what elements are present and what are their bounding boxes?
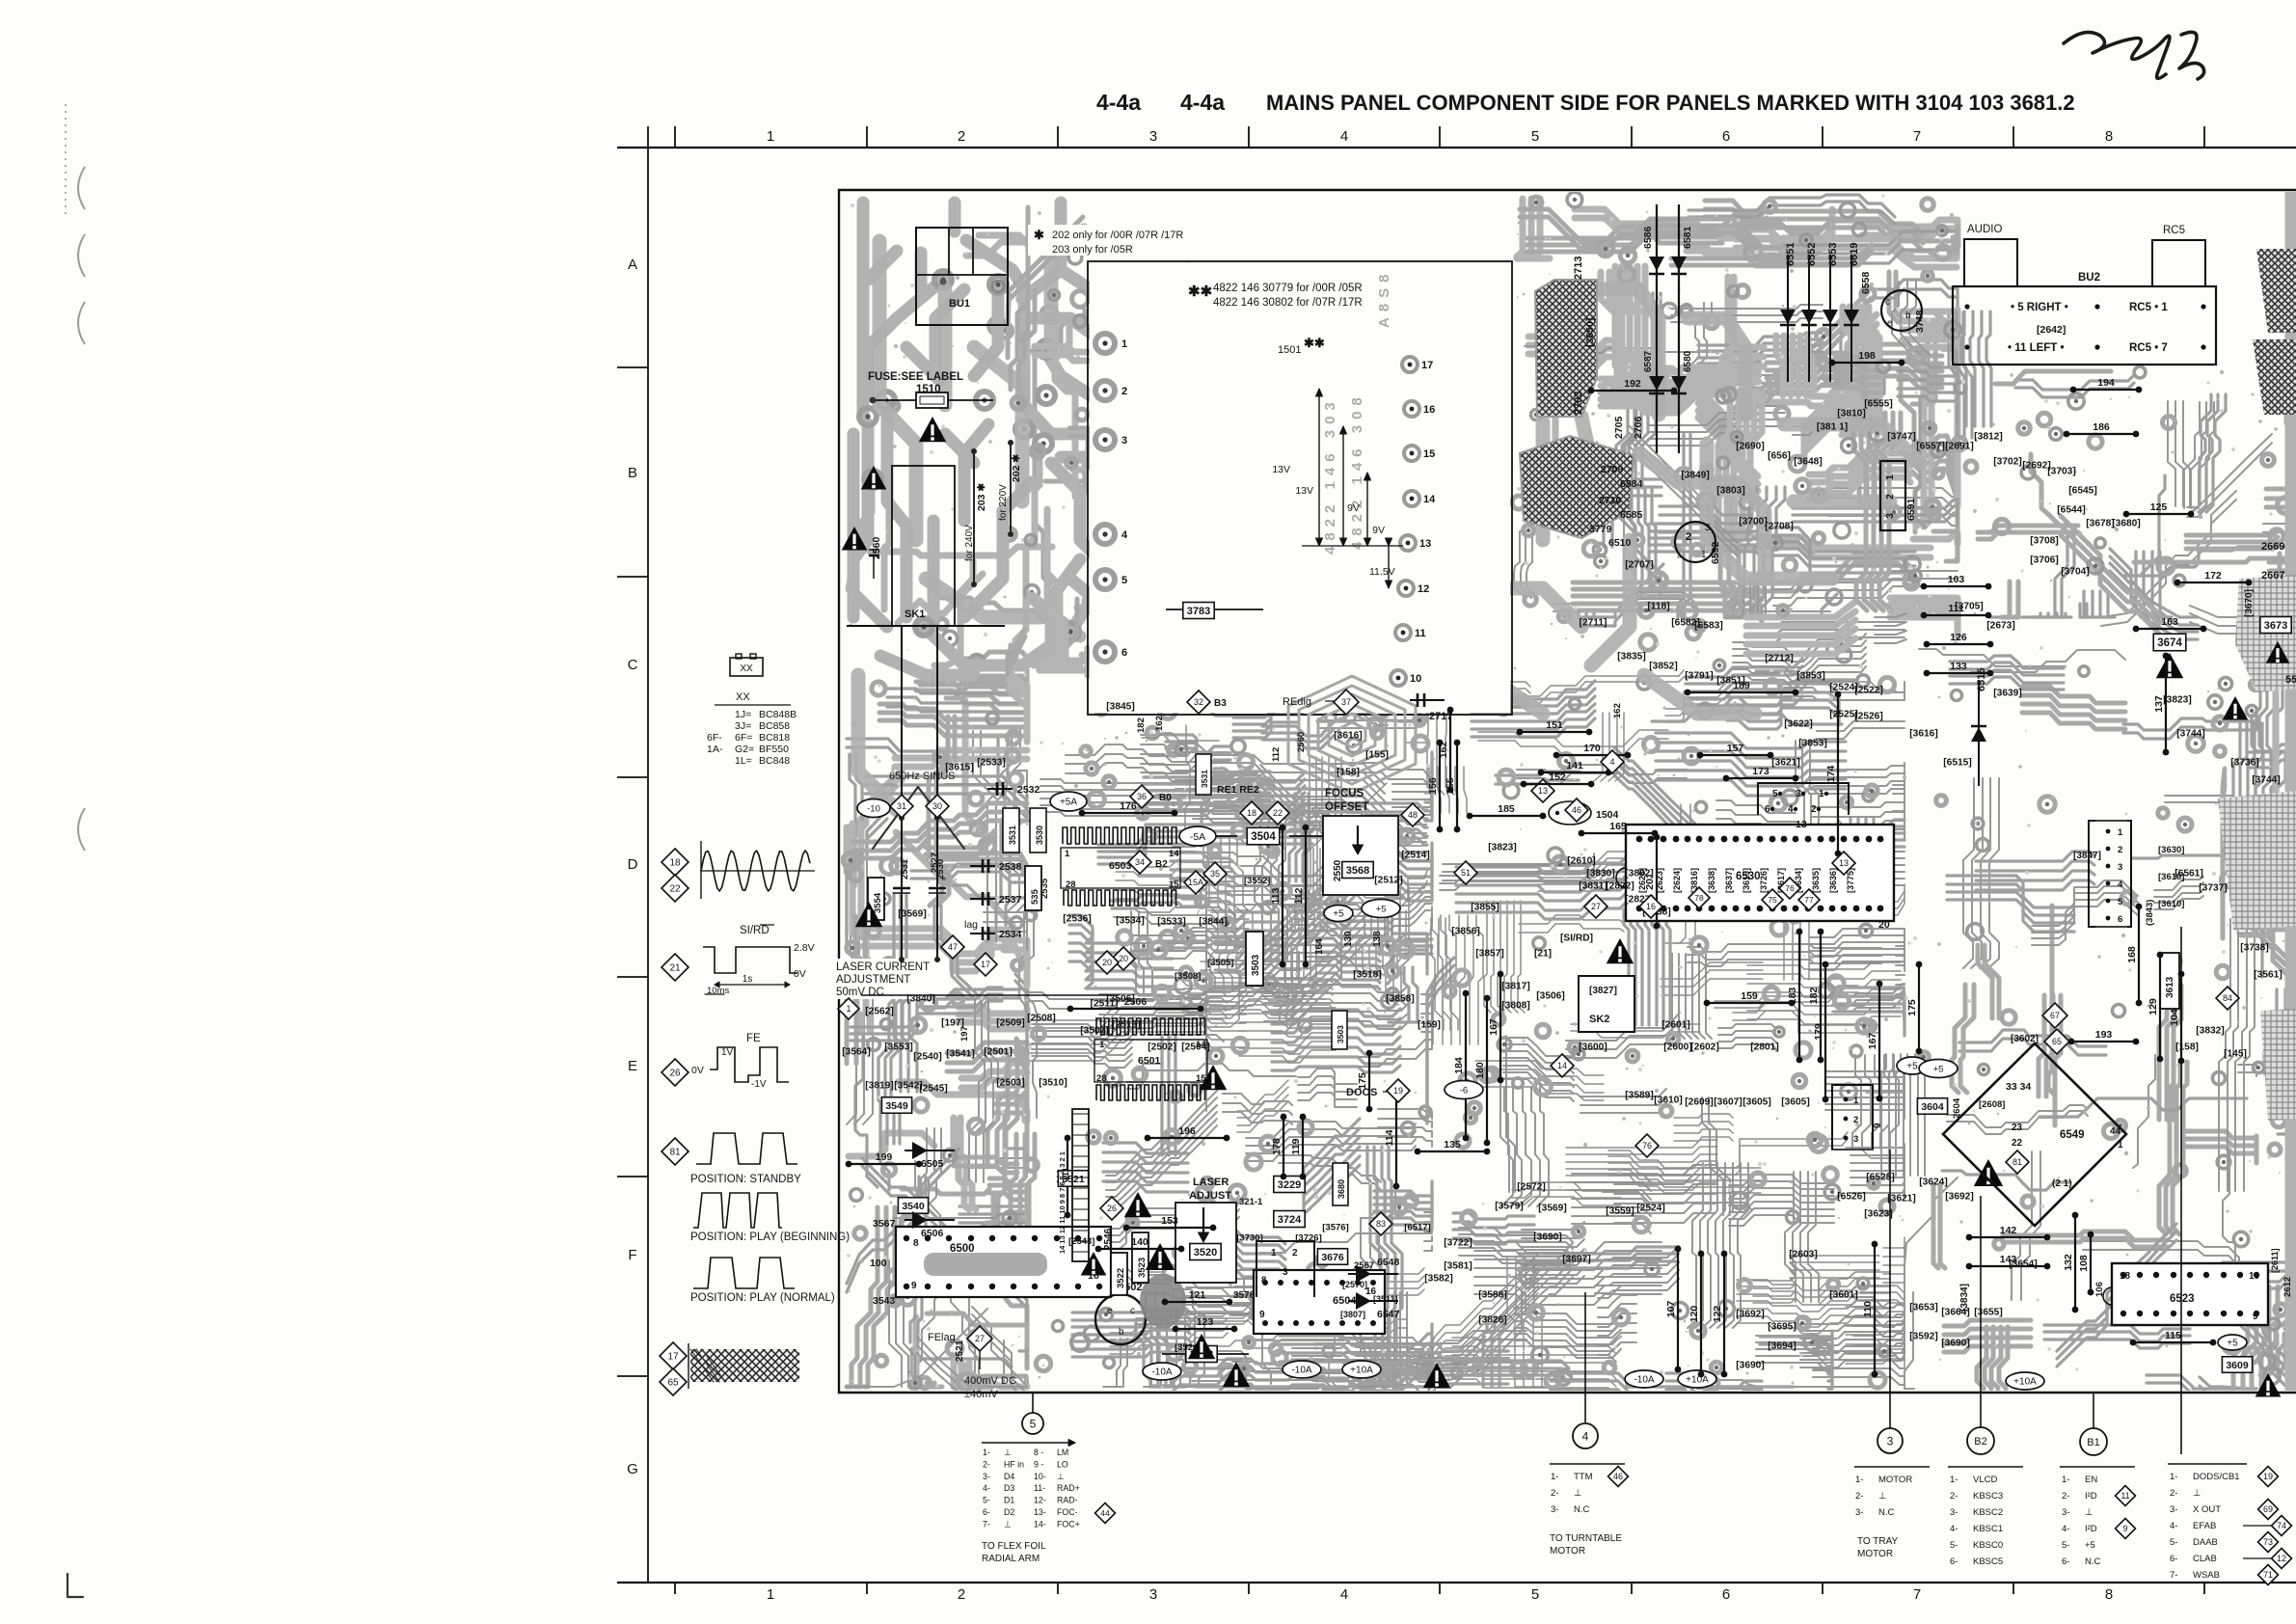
svg-text:[3849]: [3849] — [1681, 471, 1709, 481]
svg-text:-10A: -10A — [1634, 1375, 1654, 1386]
svg-text:3783: 3783 — [1187, 606, 1210, 617]
svg-text:-6: -6 — [1460, 1085, 1468, 1096]
resistor 3503 vertical (right) — [1332, 1011, 1347, 1049]
svg-text:[2562]: [2562] — [865, 1007, 893, 1017]
resistor 3673 boxed — [2260, 617, 2291, 634]
test point line 107 — [1665, 1246, 1681, 1373]
test point line 196 — [1145, 1125, 1230, 1141]
svg-text:[3616]: [3616] — [1334, 731, 1362, 742]
svg-text:122: 122 — [1712, 1306, 1723, 1323]
svg-text:2538: 2538 — [999, 861, 1022, 873]
svg-text:(2 1): (2 1) — [2052, 1178, 2072, 1189]
svg-text:BC848: BC848 — [759, 755, 790, 767]
net -10 — [857, 799, 890, 818]
board edge ground bands — [2285, 193, 2296, 1389]
svg-text:112: 112 — [1271, 747, 1282, 762]
svg-text:3522: 3522 — [1116, 1268, 1126, 1288]
svg-text:16: 16 — [1646, 902, 1656, 911]
svg-text:[3705]: [3705] — [1955, 602, 1983, 612]
svg-text:3676: 3676 — [1321, 1252, 1344, 1263]
svg-text:[6525]: [6525] — [1866, 1173, 1894, 1183]
svg-text:[3690]: [3690] — [1736, 1361, 1764, 1371]
svg-text:174: 174 — [1825, 766, 1837, 783]
svg-text:FUSE:SEE LABEL: FUSE:SEE LABEL — [868, 371, 963, 383]
svg-text:4822 146 303: 4822 146 303 — [1322, 396, 1338, 555]
svg-text:14-: 14- — [1034, 1519, 1046, 1529]
svg-text:129: 129 — [2147, 998, 2159, 1015]
svg-text:194: 194 — [2097, 377, 2115, 389]
test lines 142/143 — [1966, 1225, 2051, 1240]
svg-text:6584: 6584 — [1620, 478, 1643, 490]
svg-text:4-4a: 4-4a — [1180, 90, 1225, 115]
svg-text:⊥: ⊥ — [1057, 1472, 1065, 1481]
svg-text:9: 9 — [1873, 1123, 1883, 1128]
warning triangle mains 1 — [861, 466, 887, 490]
svg-text:4-: 4- — [1950, 1524, 1958, 1534]
svg-text:[3744]: [3744] — [2252, 775, 2280, 786]
test point line 155 — [1445, 740, 1460, 833]
svg-text:[3624]: [3624] — [1919, 1177, 1947, 1188]
svg-text:180: 180 — [1474, 1062, 1486, 1079]
svg-text:18: 18 — [2120, 1271, 2131, 1282]
svg-text:MOTOR: MOTOR — [1878, 1475, 1912, 1485]
svg-text:73: 73 — [2263, 1537, 2273, 1547]
svg-text:[3615]: [3615] — [945, 763, 973, 773]
svg-text:[6517]: [6517] — [1404, 1222, 1430, 1232]
svg-text:[3569]: [3569] — [898, 909, 926, 920]
crosshatch patch C right edge — [2256, 249, 2296, 333]
warning triangle bottom1 — [1223, 1362, 1251, 1387]
svg-text:D: D — [628, 856, 638, 873]
svg-text:[3726]: [3726] — [1759, 868, 1769, 893]
test point line 2506 — [1067, 996, 1204, 1012]
handwritten page mark — [2064, 32, 2170, 78]
svg-text:108: 108 — [2078, 1255, 2090, 1272]
svg-text:[6561]: [6561] — [2174, 869, 2202, 880]
svg-text:[21]: [21] — [1534, 949, 1552, 960]
svg-text:POSITION: PLAY (BEGINNING): POSITION: PLAY (BEGINNING) — [690, 1232, 850, 1243]
svg-text:51: 51 — [1461, 868, 1471, 878]
diodes 6551 6552 6553 6619 — [1780, 243, 1796, 382]
resistor 3229 — [1274, 1177, 1305, 1193]
connector 6591 1 2 3 — [1880, 461, 1905, 530]
svg-text:[3844]: [3844] — [1199, 917, 1227, 928]
svg-text:[3704]: [3704] — [2061, 567, 2089, 578]
svg-text:G2=: G2= — [735, 744, 754, 755]
svg-text:[6555]: [6555] — [1864, 399, 1892, 410]
svg-text:[3505]: [3505] — [1207, 958, 1233, 968]
svg-text:84: 84 — [2223, 993, 2232, 1003]
svg-text:6547: 6547 — [1377, 1309, 1400, 1320]
diodes 6505/6506 — [912, 1142, 928, 1159]
svg-text:G: G — [627, 1461, 638, 1477]
SK2 — [1579, 976, 1634, 1032]
svg-text:TTM: TTM — [1574, 1472, 1593, 1482]
test point line 194 — [2070, 377, 2143, 392]
svg-text:7: 7 — [1913, 1586, 1921, 1603]
svg-text:[3810]: [3810] — [1837, 409, 1865, 420]
test point line 167 — [1488, 971, 1503, 1084]
svg-text:69: 69 — [2263, 1504, 2273, 1514]
test point line 110 — [1862, 1241, 1877, 1378]
svg-text:[3610]: [3610] — [1654, 1096, 1682, 1106]
svg-text:[3636]: [3636] — [1828, 868, 1838, 893]
node 47 — [941, 935, 964, 959]
svg-text:CLAB: CLAB — [2193, 1554, 2217, 1564]
svg-text:2710: 2710 — [1599, 495, 1622, 506]
vertical pin header left — [1072, 1109, 1089, 1261]
svg-text:110: 110 — [1862, 1301, 1874, 1317]
svg-text:[3650]: [3650] — [1584, 318, 1596, 347]
svg-text:14 13 12 11 10 9 8 7 6 5 4 3 2: 14 13 12 11 10 9 8 7 6 5 4 3 2 1 — [1058, 1151, 1067, 1254]
resistors 3522/3523 vertical — [1111, 1253, 1127, 1295]
svg-text:EFAB: EFAB — [2193, 1521, 2216, 1531]
connector 14pin bottom — [1256, 1241, 1314, 1297]
svg-text:1-: 1- — [1551, 1472, 1558, 1482]
svg-text:[3569]: [3569] — [1538, 1204, 1566, 1214]
svg-text:D2: D2 — [1004, 1507, 1014, 1517]
svg-text:RAD+: RAD+ — [1057, 1483, 1080, 1493]
svg-text:3748: 3748 — [1914, 310, 1926, 333]
svg-text:4822 146 308: 4822 146 308 — [1349, 392, 1365, 550]
svg-text:[2603]: [2603] — [1789, 1250, 1817, 1260]
svg-text:3503: 3503 — [1251, 954, 1261, 976]
PCB outer border — [839, 190, 2296, 1393]
test point line 152 — [1521, 771, 1595, 787]
test point line 151 — [1517, 719, 1593, 735]
transistor 6592 — [1675, 522, 1715, 562]
svg-text:[118]: [118] — [1647, 602, 1669, 612]
svg-text:I²D: I²D — [2085, 1524, 2097, 1534]
svg-text:SK1: SK1 — [905, 609, 925, 620]
test point line 111 — [1055, 1135, 1070, 1219]
node 76 — [1635, 1134, 1659, 1157]
svg-text:4: 4 — [1582, 1429, 1589, 1443]
svg-text:10: 10 — [2249, 1271, 2260, 1282]
svg-text:138: 138 — [1372, 931, 1383, 947]
svg-text:FOCUS: FOCUS — [1325, 788, 1364, 799]
svg-text:5: 5 — [1030, 1417, 1037, 1430]
svg-text:+5: +5 — [1906, 1062, 1918, 1072]
svg-text:7-: 7- — [983, 1519, 990, 1529]
svg-text:6586: 6586 — [1642, 226, 1654, 249]
svg-text:VLCD: VLCD — [1973, 1475, 1997, 1485]
transistor 6502 — [1095, 1294, 1146, 1344]
svg-text:30: 30 — [932, 801, 942, 811]
svg-text:[2610]: [2610] — [1567, 856, 1595, 867]
test point line 114 — [1384, 1087, 1399, 1190]
svg-text:3: 3 — [1887, 1434, 1894, 1448]
top ruler — [617, 147, 2296, 149]
test point line 184 — [1453, 990, 1469, 1142]
svg-text:[2511]: [2511] — [1091, 999, 1119, 1010]
svg-text:FOC-: FOC- — [1057, 1507, 1078, 1517]
svg-text:(3843): (3843) — [2145, 900, 2155, 926]
svg-text:D4: D4 — [1004, 1472, 1014, 1481]
mains wide traces — [966, 240, 1024, 405]
svg-text:8: 8 — [1261, 1275, 1266, 1286]
svg-text:[3564]: [3564] — [842, 1047, 870, 1058]
diode 6515 — [1971, 668, 1987, 786]
svg-text:3554: 3554 — [873, 892, 883, 913]
svg-text:[2611]: [2611] — [2270, 1248, 2280, 1273]
svg-text:48: 48 — [1408, 810, 1418, 820]
test point line 141 — [1538, 760, 1612, 775]
svg-text:N.C: N.C — [2085, 1556, 2101, 1567]
svg-text:162: 162 — [1612, 703, 1623, 718]
svg-text:KBSC1: KBSC1 — [1973, 1524, 2003, 1534]
svg-text:[2540]: [2540] — [913, 1052, 941, 1063]
svg-text:[3845]: [3845] — [1106, 702, 1134, 713]
svg-text:AUDIO: AUDIO — [1967, 224, 2002, 235]
svg-text:27: 27 — [975, 1334, 985, 1343]
svg-text:[145]: [145] — [2224, 1049, 2247, 1060]
svg-text:[3506]: [3506] — [1536, 991, 1564, 1002]
svg-text:3540: 3540 — [902, 1201, 925, 1212]
svg-text:3-: 3- — [1950, 1507, 1958, 1518]
svg-text:LASER CURRENT: LASER CURRENT — [836, 961, 930, 973]
transistor package symbol XX — [730, 658, 763, 676]
AUDIO connector stub — [1964, 239, 2017, 286]
node 17 — [974, 953, 997, 976]
svg-text:9: 9 — [1259, 1310, 1265, 1320]
svg-text:100: 100 — [870, 1258, 887, 1269]
svg-text:[3853]: [3853] — [1796, 671, 1824, 682]
svg-text:[3621]: [3621] — [1887, 1194, 1915, 1204]
svg-text:[3619]: [3619] — [1742, 868, 1751, 893]
mains splotch pads — [878, 392, 895, 409]
svg-text:119: 119 — [1290, 1138, 1302, 1154]
svg-text:14: 14 — [1169, 849, 1179, 859]
svg-text:20: 20 — [1102, 958, 1112, 967]
svg-text:47: 47 — [948, 942, 958, 952]
svg-text:3-: 3- — [2062, 1507, 2069, 1518]
svg-text:1: 1 — [1819, 789, 1824, 799]
svg-text:5: 5 — [1531, 1586, 1539, 1603]
svg-text:XX: XX — [736, 691, 750, 703]
svg-text:[3702]: [3702] — [1993, 457, 2021, 468]
svg-text:8: 8 — [913, 1238, 919, 1249]
svg-text:55: 55 — [2285, 674, 2296, 686]
svg-text:184: 184 — [1453, 1057, 1465, 1074]
svg-text:6: 6 — [1765, 804, 1770, 815]
svg-text:3549: 3549 — [885, 1100, 908, 1112]
node 83 — [1369, 1212, 1392, 1235]
svg-text:3-: 3- — [2170, 1504, 2177, 1515]
svg-text:+10A: +10A — [1686, 1375, 1709, 1386]
svg-text:[3511]: [3511] — [1373, 1294, 1398, 1304]
svg-text:+5: +5 — [1933, 1064, 1944, 1074]
svg-text:b: b — [1119, 1327, 1124, 1338]
resistor 3553 — [1162, 1353, 1249, 1355]
svg-text:[3518]: [3518] — [1353, 970, 1381, 981]
svg-text:182: 182 — [1136, 717, 1147, 733]
svg-text:1-: 1- — [2062, 1475, 2069, 1485]
svg-text:[3852]: [3852] — [1649, 662, 1677, 672]
svg-text:78: 78 — [1694, 893, 1704, 903]
svg-text:135: 135 — [1444, 1139, 1461, 1150]
svg-text:2: 2 — [958, 128, 965, 145]
svg-text:3520: 3520 — [1194, 1247, 1217, 1259]
svg-text:12: 12 — [2277, 1554, 2286, 1563]
svg-text:3: 3 — [1853, 1134, 1858, 1145]
svg-text:12: 12 — [1418, 583, 1429, 595]
svg-text:[3589]: [3589] — [1625, 1091, 1653, 1101]
svg-text:535: 535 — [1030, 888, 1040, 905]
net +5 — [1919, 1060, 1958, 1078]
resistor 535 vertical — [1025, 866, 1041, 910]
svg-text:[2536]: [2536] — [1063, 914, 1091, 925]
svg-text:REdig: REdig — [1283, 696, 1311, 708]
svg-text:4: 4 — [1340, 1586, 1348, 1603]
cap 2717 — [1410, 699, 1445, 701]
svg-text:67: 67 — [2050, 1011, 2060, 1020]
svg-text:2: 2 — [958, 1586, 965, 1603]
svg-text:[3559]: [3559] — [1606, 1206, 1634, 1217]
svg-text:74: 74 — [2277, 1521, 2286, 1530]
svg-text:[3694]: [3694] — [1768, 1341, 1796, 1352]
svg-text:2-: 2- — [983, 1459, 990, 1469]
svg-text:3543: 3543 — [873, 1295, 896, 1307]
svg-text:46: 46 — [1572, 805, 1581, 815]
svg-text:1A-: 1A- — [707, 744, 723, 755]
svg-text:14: 14 — [1423, 494, 1436, 505]
svg-text:2537: 2537 — [999, 894, 1022, 906]
svg-text:3: 3 — [1121, 435, 1127, 447]
svg-text:37: 37 — [1341, 697, 1351, 707]
svg-text:10ms: 10ms — [707, 986, 729, 996]
node 27 — [1584, 895, 1607, 918]
callout B2 — [1967, 1427, 1994, 1454]
svg-text:2-: 2- — [1950, 1491, 1958, 1502]
svg-text:3609: 3609 — [2226, 1360, 2249, 1371]
svg-text:23: 23 — [2012, 1123, 2023, 1133]
misc labels bottom middle — [1283, 1361, 1321, 1378]
svg-text:[2624]: [2624] — [1672, 868, 1682, 893]
svg-text:FElag: FElag — [928, 1332, 956, 1343]
node 4 — [1601, 750, 1624, 773]
test point line 175 — [1906, 961, 1922, 1055]
svg-text:400mV DC: 400mV DC — [964, 1375, 1016, 1387]
svg-text:[3831]: [3831] — [1579, 881, 1607, 892]
svg-text:2: 2 — [1121, 386, 1127, 397]
svg-text:4: 4 — [1121, 529, 1128, 541]
svg-text:7-: 7- — [2170, 1570, 2177, 1581]
svg-text:[2712]: [2712] — [1765, 654, 1793, 664]
svg-text:[3830]: [3830] — [1586, 869, 1614, 880]
svg-text:157: 157 — [1727, 743, 1744, 754]
svg-text:22: 22 — [669, 884, 681, 895]
svg-text:2534: 2534 — [999, 929, 1022, 940]
svg-text:WSAB: WSAB — [2193, 1570, 2220, 1581]
svg-text:MOTOR: MOTOR — [1550, 1546, 1585, 1556]
svg-text:76: 76 — [1785, 883, 1795, 893]
svg-text:1: 1 — [1099, 1040, 1105, 1050]
svg-text:[2526]: [2526] — [1854, 712, 1882, 722]
square wave play normal — [693, 1258, 795, 1288]
svg-text:2531: 2531 — [900, 858, 910, 880]
svg-text:1J=: 1J= — [735, 709, 751, 720]
svg-text:5-: 5- — [1950, 1540, 1958, 1551]
svg-text:[158]: [158] — [1337, 768, 1360, 778]
svg-text:[2570]: [2570] — [1342, 1280, 1367, 1289]
svg-text:[6515]: [6515] — [1943, 758, 1971, 769]
svg-text:65: 65 — [667, 1378, 679, 1389]
svg-text:44: 44 — [2110, 1126, 2121, 1137]
svg-text:MAINS PANEL COMPONENT SIDE FOR: MAINS PANEL COMPONENT SIDE FOR PANELS MA… — [1266, 91, 2075, 115]
svg-text:[3851]: [3851] — [1716, 676, 1744, 687]
svg-text:164: 164 — [1314, 938, 1325, 955]
svg-text:[2708]: [2708] — [1765, 522, 1793, 532]
svg-text:BF550: BF550 — [759, 744, 789, 755]
svg-text:1: 1 — [1853, 1096, 1859, 1106]
node 36 — [1130, 785, 1153, 808]
test point line 173 — [1723, 766, 1799, 781]
svg-text:34: 34 — [1135, 857, 1145, 867]
svg-text:11.5V: 11.5V — [1369, 566, 1395, 578]
IC 6500 — [896, 1227, 1111, 1297]
svg-text:202 ✱: 202 ✱ — [1011, 454, 1022, 482]
diamond 67/65 + 193 — [2042, 1003, 2067, 1028]
svg-text:159: 159 — [1741, 990, 1758, 1002]
note 202/203 — [1028, 225, 1182, 256]
svg-text:203 ✱: 203 ✱ — [976, 483, 987, 511]
svg-text:for 220V: for 220V — [998, 484, 1009, 521]
svg-text:2-: 2- — [1551, 1488, 1558, 1499]
svg-text:168: 168 — [2126, 946, 2138, 963]
svg-text:3613: 3613 — [2165, 976, 2175, 998]
sine source symbol — [873, 787, 964, 849]
svg-text:3531: 3531 — [1200, 770, 1209, 788]
copper trace texture (scanned PCB look) — [898, 574, 983, 623]
svg-text:[2572]: [2572] — [1517, 1182, 1545, 1193]
svg-text:22: 22 — [1273, 808, 1283, 818]
svg-text:E: E — [628, 1058, 637, 1074]
svg-text:1: 1 — [2118, 1140, 2123, 1150]
svg-text:2709: 2709 — [1601, 464, 1624, 475]
svg-text:6551: 6551 — [1785, 243, 1796, 266]
node 51 — [1454, 861, 1477, 884]
svg-text:6-: 6- — [2170, 1554, 2177, 1564]
svg-text:[3601]: [3601] — [1829, 1290, 1857, 1301]
svg-text:6: 6 — [1722, 128, 1730, 145]
svg-text:121: 121 — [1189, 1289, 1206, 1301]
svg-text:321-1: 321-1 — [1239, 1197, 1263, 1207]
svg-text:2669: 2669 — [2261, 541, 2284, 553]
svg-text:6505: 6505 — [921, 1158, 944, 1170]
svg-text:+5: +5 — [2227, 1339, 2238, 1349]
svg-text:[3655]: [3655] — [1974, 1308, 2002, 1318]
svg-text:[3630]: [3630] — [2158, 845, 2184, 855]
svg-text:[3680]: [3680] — [2112, 519, 2140, 529]
svg-text:[2711]: [2711] — [1580, 618, 1607, 629]
svg-text:104: 104 — [2169, 1009, 2180, 1026]
bottom ruler — [617, 1582, 2296, 1583]
test point line 153 — [1123, 1215, 1217, 1231]
resistor 3504 — [1247, 827, 1280, 845]
svg-text:[3534]: [3534] — [1116, 916, 1144, 927]
svg-text:B2: B2 — [1974, 1436, 1986, 1448]
wires 2531/2530 junction dots — [899, 815, 905, 821]
svg-text:2.8V: 2.8V — [794, 942, 815, 954]
svg-text:6-: 6- — [2062, 1556, 2069, 1567]
svg-text:151: 151 — [1546, 719, 1563, 731]
test point line 168 — [2126, 904, 2142, 1007]
svg-text:[3582]: [3582] — [1424, 1274, 1452, 1285]
svg-text:ADJUSTMENT: ADJUSTMENT — [836, 974, 910, 986]
svg-text:X OUT: X OUT — [2193, 1504, 2221, 1515]
svg-text:DAAB: DAAB — [2193, 1537, 2218, 1548]
